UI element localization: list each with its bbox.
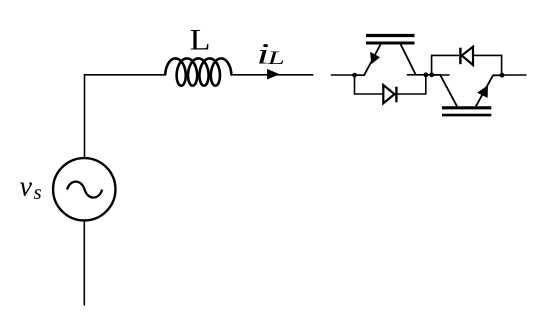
diode D1 branch wire — [355, 75, 384, 94]
transistor Q2 emitter arrow — [477, 85, 488, 98]
transistor Q2 emitter lead — [476, 75, 502, 106]
transistor Q2 collector lead — [440, 75, 457, 106]
wire — [231, 74, 314, 76]
wire — [331, 74, 355, 76]
diode D2 branch wire — [432, 55, 459, 74]
wire — [83, 221, 85, 305]
node D — [500, 73, 505, 78]
transistor Q1 collector lead — [401, 45, 416, 75]
svg-text:v: v — [20, 172, 33, 203]
svg-text:L: L — [266, 48, 285, 69]
diode D2 branch wire — [474, 55, 502, 75]
voltage source VS — [53, 158, 115, 220]
transistor Q1 gate bars — [366, 36, 415, 44]
node A — [352, 73, 357, 78]
inductor L — [165, 58, 231, 85]
diode D1 — [383, 85, 396, 103]
current arrow iL — [267, 69, 280, 80]
wire — [407, 74, 441, 76]
diode D2 — [460, 47, 473, 65]
sine wave — [67, 182, 102, 198]
node C — [429, 72, 434, 77]
diode D1 branch wire — [396, 75, 425, 94]
transistor Q1 emitter lead — [355, 45, 381, 76]
node B — [423, 72, 428, 77]
wire — [85, 75, 166, 157]
transistor Q2 gate bars — [442, 108, 491, 115]
wire — [432, 74, 450, 76]
wire — [502, 74, 526, 76]
transistor Q1 emitter arrow — [370, 52, 380, 64]
svg-text:s: s — [34, 180, 42, 204]
svg-text:L: L — [190, 23, 211, 56]
